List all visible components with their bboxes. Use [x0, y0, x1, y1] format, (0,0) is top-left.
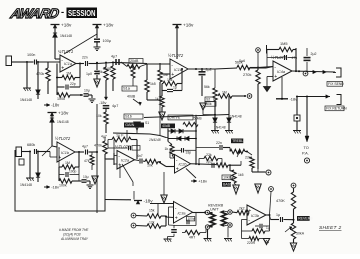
svg-text:10kB: 10kB — [223, 175, 231, 179]
svg-text:-: - — [61, 58, 63, 64]
svg-text:2μ2: 2μ2 — [206, 68, 212, 72]
svg-text:100k: 100k — [59, 184, 67, 188]
svg-text:1N4148: 1N4148 — [149, 138, 161, 142]
svg-text:GAIN: GAIN — [125, 123, 134, 127]
svg-text:S1b: S1b — [125, 115, 132, 119]
svg-text:IC3b: IC3b — [251, 214, 259, 218]
svg-text:50kB: 50kB — [194, 117, 203, 121]
svg-text:UNIT: UNIT — [210, 208, 219, 212]
svg-text:1N4148: 1N4148 — [230, 115, 242, 119]
svg-text:50k: 50k — [206, 102, 212, 106]
svg-text:100n: 100n — [27, 53, 35, 57]
svg-text:+18v: +18v — [58, 111, 69, 116]
svg-text:470K: 470K — [276, 199, 285, 203]
svg-text:F/X RETURN: F/X RETURN — [326, 106, 347, 110]
svg-text:TREBLE: TREBLE — [232, 139, 246, 143]
svg-text:2k2: 2k2 — [239, 207, 245, 211]
svg-text:+: + — [175, 216, 178, 222]
svg-text:SHEET 2: SHEET 2 — [319, 225, 341, 231]
svg-text:-18v: -18v — [144, 199, 154, 204]
svg-text:-: - — [248, 218, 250, 224]
svg-text:AWARD: AWARD — [8, 6, 60, 21]
svg-text:½TL072: ½TL072 — [271, 55, 287, 60]
svg-text:15k: 15k — [149, 209, 155, 213]
svg-text:1M: 1M — [65, 161, 70, 165]
svg-text:1k5: 1k5 — [238, 173, 244, 177]
svg-text:-: - — [176, 158, 178, 164]
svg-text:F/X SEND: F/X SEND — [328, 82, 344, 86]
svg-text:-18v: -18v — [51, 102, 60, 107]
svg-text:4μ7: 4μ7 — [112, 104, 118, 108]
svg-text:IC3a: IC3a — [178, 211, 186, 215]
svg-text:56k: 56k — [204, 85, 210, 89]
svg-text:1N4148: 1N4148 — [214, 126, 226, 130]
svg-text:10μ: 10μ — [83, 175, 89, 179]
svg-text:4R7: 4R7 — [189, 236, 195, 240]
svg-text:1M: 1M — [66, 72, 71, 76]
svg-text:IC4a: IC4a — [277, 70, 285, 74]
svg-text:4μ7: 4μ7 — [111, 55, 117, 59]
svg-text:IC2a: IC2a — [121, 159, 129, 163]
svg-text:BASS: BASS — [223, 182, 233, 186]
svg-text:IC1a: IC1a — [64, 62, 72, 66]
svg-text:1N4148: 1N4148 — [20, 98, 32, 102]
svg-text:+: + — [61, 66, 64, 72]
svg-text:1k5: 1k5 — [150, 82, 156, 86]
svg-text:100k: 100k — [95, 70, 103, 74]
svg-text:5μA: 5μA — [239, 59, 246, 63]
svg-text:1N4148: 1N4148 — [57, 120, 69, 124]
svg-text:+18v: +18v — [61, 23, 72, 28]
svg-text:-: - — [175, 206, 177, 212]
svg-text:560k: 560k — [103, 67, 111, 71]
svg-text:1μ F: 1μ F — [116, 134, 124, 138]
svg-text:10k: 10k — [167, 78, 173, 82]
svg-text:4μ7: 4μ7 — [82, 145, 88, 149]
svg-text:22k: 22k — [206, 153, 212, 157]
svg-text:S2: S2 — [206, 97, 210, 101]
svg-text:-18v: -18v — [51, 184, 59, 189]
svg-text:40dB: 40dB — [127, 95, 136, 99]
svg-text:40dB: 40dB — [162, 124, 171, 128]
svg-text:(3C)(4) PCB: (3C)(4) PCB — [63, 233, 81, 237]
svg-text:IC1b: IC1b — [61, 151, 69, 155]
svg-text:-: - — [118, 154, 120, 160]
svg-text:4n7: 4n7 — [137, 154, 143, 158]
svg-text:+18v: +18v — [103, 23, 114, 28]
svg-text:100k: 100k — [57, 97, 65, 101]
svg-text:1k: 1k — [165, 147, 169, 151]
svg-text:33p: 33p — [186, 151, 192, 155]
svg-text:1M: 1M — [163, 73, 168, 77]
svg-text:50kA: 50kA — [296, 232, 305, 236]
svg-text:1M5: 1M5 — [280, 41, 288, 46]
svg-text:10k: 10k — [147, 164, 153, 168]
svg-text:+: + — [274, 74, 277, 80]
svg-text:100p: 100p — [69, 170, 77, 174]
svg-text:P.A.: P.A. — [302, 151, 309, 156]
svg-text:22p: 22p — [70, 82, 76, 86]
svg-text:20dB: 20dB — [130, 59, 139, 63]
svg-text:10μ: 10μ — [84, 89, 90, 93]
svg-text:SESSION: SESSION — [68, 8, 96, 18]
svg-text:680k: 680k — [27, 143, 35, 147]
svg-text:S1a: S1a — [123, 87, 131, 91]
svg-text:TO: TO — [304, 145, 309, 150]
svg-text:1M: 1M — [222, 91, 227, 95]
svg-text:+18v: +18v — [183, 23, 194, 28]
svg-text:2μ2: 2μ2 — [206, 160, 212, 164]
svg-text:IC1b: IC1b — [174, 68, 182, 72]
svg-text:IC2b: IC2b — [179, 163, 187, 167]
svg-text:4μ7: 4μ7 — [101, 135, 107, 139]
svg-text:1k: 1k — [155, 97, 159, 101]
svg-text:+18v: +18v — [198, 178, 207, 183]
svg-text:270k: 270k — [243, 72, 251, 77]
svg-text:100μ: 100μ — [103, 39, 111, 43]
svg-text:47k: 47k — [84, 159, 90, 163]
svg-text:ALUMINIUM TRAY: ALUMINIUM TRAY — [60, 237, 89, 241]
svg-text:1μ: 1μ — [276, 213, 280, 217]
svg-text:REVERB: REVERB — [298, 217, 313, 221]
svg-text:½TL072: ½TL072 — [55, 136, 71, 141]
svg-text:22n: 22n — [82, 56, 88, 60]
svg-text:-: - — [274, 65, 276, 71]
svg-text:220R: 220R — [247, 241, 256, 245]
svg-text:1N4148: 1N4148 — [60, 34, 72, 38]
svg-text:DRIVE: DRIVE — [169, 116, 181, 120]
svg-text:1μ0: 1μ0 — [86, 72, 92, 76]
svg-text:-: - — [61, 6, 64, 17]
svg-text:-18v: -18v — [290, 97, 298, 102]
svg-text:-: - — [171, 63, 173, 69]
svg-text:1μ: 1μ — [173, 86, 177, 90]
svg-text:S1: S1 — [145, 121, 149, 125]
svg-text:470k: 470k — [94, 144, 102, 148]
svg-text:1N4148: 1N4148 — [20, 183, 32, 187]
svg-text:1μ: 1μ — [266, 226, 270, 230]
svg-text:½TL072: ½TL072 — [168, 53, 184, 58]
svg-text:+: + — [176, 166, 179, 172]
svg-text:2μ2: 2μ2 — [311, 52, 317, 56]
svg-text:22n: 22n — [216, 141, 222, 145]
svg-text:-18v: -18v — [99, 101, 106, 105]
svg-text:12k: 12k — [149, 221, 155, 225]
svg-text:470k: 470k — [36, 72, 44, 76]
svg-text:# MADE FROM THE: # MADE FROM THE — [59, 228, 89, 232]
